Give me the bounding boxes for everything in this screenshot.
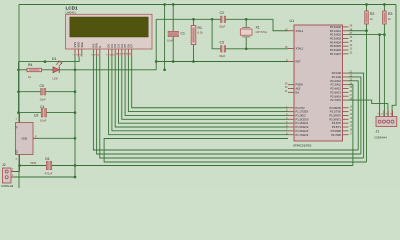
wire C3 to XTAL2: [225, 48, 288, 50]
junction crystal top: [245, 18, 248, 21]
connector J2 CONN-H2: [1, 163, 15, 188]
svg-text:J2: J2: [2, 163, 6, 167]
junction LED wire / VSS line: [74, 68, 77, 71]
svg-text:E: E: [98, 46, 102, 48]
svg-text:P3.2/INT0: P3.2/INT0: [329, 114, 341, 118]
wire +5V up to P2.3: [349, 85, 353, 166]
capacitor C1: [167, 31, 185, 42]
wire LCD D2 to P1.5: [115, 57, 288, 128]
wire C3 left: [212, 19, 221, 49]
svg-text:P0.0/AD0: P0.0/AD0: [330, 25, 342, 29]
svg-text:P3.4/T0: P3.4/T0: [332, 121, 342, 125]
svg-text:PSEN: PSEN: [296, 83, 303, 87]
wire R2 to P0.1: [349, 30, 367, 32]
resistor R4: [27, 63, 42, 79]
wire U2 VO down: [19, 155, 21, 166]
wire D1 cathode right: [60, 69, 157, 71]
wire C2 to XTAL1: [225, 19, 288, 30]
capacitor C4: [40, 105, 47, 123]
svg-text:VEE: VEE: [80, 42, 84, 48]
svg-text:D1: D1: [52, 57, 56, 61]
wire crystal leads: [245, 19, 247, 49]
wire C1 leads: [172, 5, 174, 62]
svg-text:EA: EA: [296, 90, 300, 94]
svg-text:C2: C2: [220, 11, 224, 15]
svg-text:P0.7/AD7: P0.7/AD7: [330, 52, 342, 56]
wire LCD D3 to P1.4: [119, 57, 289, 124]
svg-text:P2.3/A11: P2.3/A11: [331, 83, 342, 87]
svg-text:LED: LED: [53, 77, 58, 81]
wire P2.7 to J1 pin3: [349, 100, 388, 116]
svg-text:P2.7/A15: P2.7/A15: [330, 98, 341, 102]
svg-text:GND: GND: [22, 137, 28, 141]
junction +5V ground line C6: [74, 164, 77, 167]
wire bundle to P2.0: [349, 73, 364, 158]
svg-text:U1: U1: [290, 19, 295, 23]
svg-text:VI: VI: [15, 126, 19, 129]
LCD screen: [70, 17, 148, 37]
svg-text:470uF: 470uF: [45, 172, 53, 176]
wire rail to R4: [19, 69, 28, 71]
svg-text:P0.4/AD4: P0.4/AD4: [330, 40, 342, 44]
junction ground rail VSS line: [74, 176, 77, 179]
svg-text:C3: C3: [220, 40, 224, 44]
wire LCD E to bundle: [100, 57, 364, 159]
svg-text:P1.4/CEX1: P1.4/CEX1: [296, 121, 309, 125]
junction rail R4: [17, 68, 20, 71]
junction R2 node: [365, 29, 368, 32]
resistor R3: [383, 11, 393, 24]
svg-text:P3.5/T1: P3.5/T1: [332, 125, 342, 129]
svg-text:1k: 1k: [28, 75, 32, 79]
junction RST wire: [155, 60, 158, 63]
junction rail R2: [365, 3, 368, 6]
wire R3 to P0.2: [349, 34, 385, 36]
junction C1 RST: [172, 60, 175, 63]
svg-text:P3.6/WR: P3.6/WR: [331, 129, 342, 133]
svg-text:P0.1/AD1: P0.1/AD1: [330, 29, 342, 33]
wire top rail to J1 pin4: [392, 5, 396, 117]
svg-text:7805: 7805: [30, 161, 37, 165]
svg-text:RST: RST: [296, 60, 302, 64]
wire R3 top lead: [383, 5, 385, 12]
wire R2 descent: [366, 31, 368, 162]
connector J1 CONN-H4: [375, 111, 397, 140]
svg-text:P3.3/INT1: P3.3/INT1: [329, 117, 341, 121]
wire VO to C6: [20, 165, 47, 167]
capacitor C2: [219, 11, 226, 28]
wire C5 to ground line: [45, 91, 75, 93]
svg-text:CRYSTAL: CRYSTAL: [256, 30, 268, 34]
junction crystal bottom: [245, 47, 248, 50]
svg-text:P2.2/A10: P2.2/A10: [330, 79, 341, 83]
regulator U2 7805: [15, 114, 39, 165]
svg-text:P2.0/A8: P2.0/A8: [332, 71, 342, 75]
junction rail U2 VI: [17, 111, 20, 114]
svg-text:P1.1/T2EX: P1.1/T2EX: [296, 110, 309, 114]
junction LED wire / rail drop: [163, 68, 166, 71]
wire vertical osc rail: [155, 19, 157, 70]
diode D1 LED: [52, 57, 63, 81]
svg-text:D7: D7: [130, 44, 134, 48]
svg-text:AT89C51RD2: AT89C51RD2: [293, 144, 312, 148]
svg-text:VO: VO: [15, 150, 19, 154]
capacitor C6: [45, 157, 53, 176]
wire U2 GND to ground line: [33, 137, 75, 139]
junction C3 branch: [211, 18, 214, 21]
svg-text:P0.6/AD6: P0.6/AD6: [330, 48, 342, 52]
svg-text:P3.1/TXD: P3.1/TXD: [330, 110, 341, 114]
resistor R2: [365, 11, 375, 24]
junction R3 node: [383, 33, 386, 36]
junction rail C5: [17, 90, 20, 93]
wire VDD pin2 to left rail: [19, 57, 80, 62]
svg-text:10uF: 10uF: [40, 98, 47, 102]
junction C1 top rail: [172, 3, 175, 6]
svg-text:10uF: 10uF: [167, 39, 174, 43]
wire +5V rail through C6: [51, 165, 353, 167]
wire left rail: [18, 62, 20, 113]
wire LCD D1 to P1.6: [112, 57, 288, 131]
svg-text:P0.2/AD2: P0.2/AD2: [330, 33, 342, 37]
svg-text:10uF: 10uF: [40, 119, 47, 123]
junction on VDD wire: [44, 60, 47, 63]
svg-text:P0.5/AD5: P0.5/AD5: [330, 44, 342, 48]
svg-text:R3: R3: [388, 12, 392, 16]
svg-text:XTAL1: XTAL1: [296, 29, 304, 33]
wire R4 to D1: [42, 69, 54, 71]
svg-text:P1.3/CEX0: P1.3/CEX0: [296, 117, 309, 121]
wire U2 VI pin: [19, 113, 21, 123]
wire rail to C4: [19, 112, 42, 114]
wire J2 pin1 ground rail: [11, 176, 75, 178]
svg-text:LM041L: LM041L: [66, 11, 77, 15]
sheet border: [19, 5, 396, 189]
svg-text:C1: C1: [181, 32, 185, 36]
svg-text:P1.6/CEX3: P1.6/CEX3: [296, 129, 309, 133]
wire osc top: [156, 18, 221, 20]
svg-text:P1.5/CEX2: P1.5/CEX2: [296, 125, 309, 129]
svg-text:X1: X1: [256, 26, 260, 30]
LCD LCD1 body: [66, 14, 152, 49]
svg-text:P2.1/A9: P2.1/A9: [332, 75, 342, 79]
svg-text:P2.5/A13: P2.5/A13: [330, 90, 341, 94]
svg-text:U2: U2: [34, 114, 38, 118]
svg-text:P1.0/T2: P1.0/T2: [296, 106, 306, 110]
svg-text:33pF: 33pF: [219, 54, 226, 58]
wire R3 to J1 pin2: [383, 24, 385, 117]
wire vertical from top rail: [164, 5, 166, 70]
svg-text:P3.7/RD: P3.7/RD: [331, 133, 341, 137]
wire LCD D5 to P1.2: [125, 57, 288, 116]
wire bundle to P2.1: [349, 77, 361, 154]
svg-text:CONN-H4: CONN-H4: [375, 135, 388, 139]
svg-text:C5: C5: [40, 84, 44, 88]
wire LCD D6 to P1.1: [128, 57, 288, 112]
wire LCD RS to bundle: [93, 57, 358, 151]
junction C5 ground: [74, 90, 77, 93]
wire R2 bottom lead: [366, 24, 368, 31]
svg-text:CONN-H2: CONN-H2: [1, 184, 14, 188]
svg-text:P3.0/RXD: P3.0/RXD: [329, 106, 341, 110]
wire bundle to P2.2: [349, 81, 359, 150]
junction VO J2: [18, 164, 21, 167]
wire VSS ground line: [74, 57, 76, 178]
svg-text:J1: J1: [376, 129, 380, 133]
svg-text:R1: R1: [198, 26, 202, 30]
svg-text:XTAL2: XTAL2: [296, 47, 304, 51]
junction U2 GND: [74, 137, 77, 140]
wire J2 pin2 to +5V: [11, 166, 20, 172]
wire LCD D4 to P1.3: [122, 57, 288, 120]
wire rail to C5: [19, 91, 41, 93]
svg-text:R4: R4: [28, 63, 32, 67]
wire J1 pin1 up: [379, 35, 381, 117]
junction J1 pin1: [378, 33, 381, 36]
svg-text:P2.4/A12: P2.4/A12: [330, 87, 341, 91]
capacitor C5: [40, 84, 47, 102]
junction top rail: [163, 3, 166, 6]
junction rail R3: [383, 3, 386, 6]
svg-text:P1.2/ECI: P1.2/ECI: [296, 114, 307, 118]
junction R1 top: [192, 18, 195, 21]
svg-text:ALE: ALE: [296, 87, 301, 91]
junction R1 RST: [192, 60, 195, 63]
wire VCC top rail: [19, 4, 396, 6]
LCD pin stubs and labels: [74, 49, 76, 57]
junction C4 ground: [74, 111, 77, 114]
wire RST: [156, 61, 288, 63]
wire LCD D0 to P1.7: [109, 57, 288, 135]
wire R1 leads: [193, 19, 195, 61]
crystal X1: [240, 26, 267, 37]
wire LCD D7 to P1.0: [132, 57, 288, 108]
svg-text:C6: C6: [45, 157, 49, 161]
svg-text:P2.6/A14: P2.6/A14: [330, 94, 341, 98]
svg-text:P1.7/CEX4: P1.7/CEX4: [296, 133, 309, 137]
svg-text:8.2k: 8.2k: [198, 31, 204, 35]
wire R2 top lead: [366, 5, 368, 12]
wire LCD RW to bundle: [97, 57, 361, 155]
svg-text:P0.3/AD3: P0.3/AD3: [330, 37, 342, 41]
svg-text:33pF: 33pF: [219, 24, 226, 28]
svg-text:C4: C4: [40, 105, 44, 109]
resistor R1: [191, 26, 203, 45]
wire C4 to ground line: [46, 112, 75, 114]
wire bundle extra / ninth line: [104, 139, 366, 163]
svg-text:R2: R2: [370, 12, 374, 16]
capacitor C3: [219, 40, 226, 57]
op-amp U1 AT89C51RD2 microcontroller: [294, 25, 343, 141]
